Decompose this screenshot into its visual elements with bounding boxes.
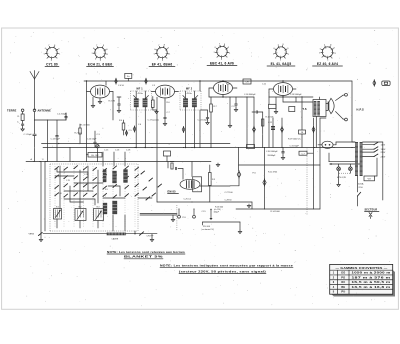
svg-text:CADRE: CADRE — [112, 238, 119, 241]
svg-text:B.3: B.3 — [97, 207, 100, 209]
svg-text:P.U 600: P.U 600 — [203, 226, 211, 228]
svg-text:130V: 130V — [381, 149, 386, 151]
svg-text:— GAMMES COUVERTES —: — GAMMES COUVERTES — — [336, 266, 388, 270]
svg-text:EF 41, 6BA6: EF 41, 6BA6 — [152, 62, 173, 66]
svg-text:C.17 (assez): C.17 (assez) — [148, 119, 160, 121]
svg-text:EBC 41, 6 AV6: EBC 41, 6 AV6 — [210, 61, 234, 65]
svg-text:C.2 250pF: C.2 250pF — [57, 113, 67, 115]
svg-text:100µF: 100µF — [214, 211, 220, 213]
svg-text:220V: 220V — [381, 152, 386, 154]
svg-text:C.31 50pF: C.31 50pF — [290, 145, 300, 147]
svg-text:(secteur 220V, 50 périodes, sa: (secteur 220V, 50 périodes, sans signal) — [179, 271, 266, 274]
svg-text:EZ 40, 6 AV4: EZ 40, 6 AV4 — [317, 62, 338, 66]
svg-text:TERRE: TERRE — [7, 109, 17, 112]
svg-text:245V: 245V — [381, 157, 386, 159]
svg-text:R.14 1000: R.14 1000 — [271, 211, 281, 213]
svg-text:187 m à 576 m: 187 m à 576 m — [352, 276, 392, 279]
svg-text:R.19 5000 Ch.: R.19 5000 Ch. — [288, 138, 301, 140]
svg-text:H.P.S: H.P.S — [357, 108, 365, 112]
svg-text:MF 2: MF 2 — [186, 88, 193, 91]
svg-text:C.27 100: C.27 100 — [225, 192, 234, 194]
svg-text:C.16 8000pF: C.16 8000pF — [244, 94, 256, 96]
svg-text:C.24 100pF: C.24 100pF — [198, 119, 209, 121]
svg-text:C.21: C.21 — [84, 174, 88, 176]
svg-text:V.R: V.R — [368, 179, 372, 181]
svg-text:C.25 0,1: C.25 0,1 — [184, 198, 192, 200]
svg-text:R.13 50k: R.13 50k — [266, 117, 274, 119]
svg-text:MF 1: MF 1 — [137, 88, 144, 91]
svg-text:C.14 50pF: C.14 50pF — [87, 139, 97, 141]
svg-text:R.1 47000: R.1 47000 — [81, 124, 91, 126]
svg-text:P.U: P.U — [183, 217, 187, 219]
svg-text:C.19: C.19 — [66, 180, 70, 182]
svg-text:16,5 m à 50,5 m: 16,5 m à 50,5 m — [352, 281, 392, 284]
svg-text:PO: PO — [341, 276, 345, 279]
svg-text:50mA: 50mA — [358, 183, 364, 186]
svg-text:4CV 6,3V: 4CV 6,3V — [337, 177, 347, 179]
svg-text:BE: BE — [341, 286, 345, 289]
svg-text:PU: PU — [341, 291, 345, 294]
svg-text:C.18 5000pF: C.18 5000pF — [290, 94, 302, 96]
svg-text:(sur bornier P.U): (sur bornier P.U) — [202, 228, 215, 231]
svg-text:C.30 5000pF: C.30 5000pF — [266, 151, 278, 153]
svg-text:OC: OC — [341, 281, 345, 284]
svg-text:VERS: VERS — [29, 234, 35, 236]
svg-text:BLANKET 5%: BLANKET 5% — [124, 256, 164, 259]
svg-text:B.1: B.1 — [56, 207, 59, 209]
svg-text:C.1 50pF: C.1 50pF — [24, 134, 33, 136]
svg-text:R.12 470k: R.12 470k — [268, 172, 277, 174]
svg-text:CY1 80: CY1 80 — [46, 62, 58, 66]
svg-text:CH. HP: CH. HP — [147, 236, 154, 238]
svg-text:R.5: R.5 — [105, 189, 108, 191]
svg-text:1050 m à 2000 m: 1050 m à 2000 m — [352, 272, 392, 275]
svg-text:455kc: 455kc — [187, 93, 192, 95]
svg-text:T.S: T.S — [303, 108, 307, 111]
svg-text:C.28 50: C.28 50 — [225, 199, 233, 201]
svg-text:ANTENNE: ANTENNE — [38, 109, 52, 112]
svg-text:CH: CH — [245, 82, 249, 84]
svg-text:R.3 1M: R.3 1M — [109, 101, 116, 103]
svg-text:455kc: 455kc — [138, 93, 143, 95]
svg-text:EL 41, 6AQ5: EL 41, 6AQ5 — [271, 62, 292, 66]
svg-text:20000pF: 20000pF — [268, 155, 277, 157]
svg-text:13,5 m à 16,8 m: 13,5 m à 16,8 m — [352, 286, 392, 289]
svg-text:P.U: P.U — [253, 172, 257, 174]
svg-text:C.12: C.12 — [268, 122, 272, 124]
svg-text:GO: GO — [341, 272, 345, 275]
svg-text:NOTE: Les tensions sont relevé: NOTE: Les tensions sont relevées aux bor… — [107, 251, 186, 254]
svg-text:C.15: C.15 — [202, 211, 206, 213]
svg-text:ECH 21, 6 BE6: ECH 21, 6 BE6 — [88, 62, 112, 66]
svg-text:C.4 50: C.4 50 — [118, 85, 125, 87]
svg-text:C.13 50pF: C.13 50pF — [51, 139, 61, 141]
svg-text:NOTE: Les tensions indiquées s: NOTE: Les tensions indiquées sont mesuré… — [160, 265, 294, 268]
